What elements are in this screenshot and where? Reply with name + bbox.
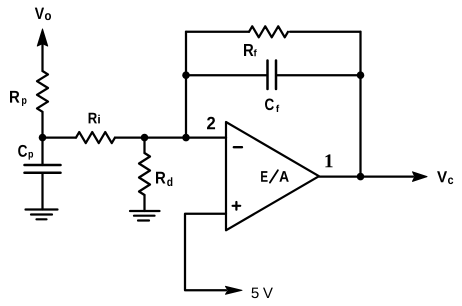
junction feedback tap on input node bbox=[182, 134, 190, 142]
junction node A bbox=[39, 134, 47, 142]
resistor Rd with connecting wires bbox=[139, 138, 150, 211]
wire Ri to op-amp input node 2 bbox=[115, 136, 226, 138]
junction Cf right bbox=[357, 71, 365, 79]
wire top feedback left of Rf bbox=[186, 31, 249, 33]
ground under Cp bbox=[26, 210, 58, 220]
label 5 V bbox=[252, 288, 273, 298]
node Vc label bbox=[437, 171, 453, 184]
ground under Rd bbox=[130, 211, 160, 221]
wire Cf right bbox=[277, 74, 361, 76]
label Cf bbox=[265, 98, 279, 112]
wire feedback vertical tap bbox=[185, 32, 187, 138]
wire right feedback vertical bbox=[359, 32, 361, 177]
label E/A bbox=[261, 171, 289, 182]
wire node A to Ri bbox=[43, 136, 77, 138]
capacitor Cp bbox=[25, 165, 61, 173]
pin 1 label bbox=[325, 154, 332, 167]
label Ri bbox=[89, 113, 100, 124]
junction node B bbox=[141, 134, 149, 142]
op-amp plus input marking bbox=[233, 202, 241, 210]
wire plus input to 5V with arrowhead bbox=[185, 214, 242, 294]
wire Cp to ground bbox=[41, 173, 43, 210]
op-amp U1 E/A triangle bbox=[226, 122, 319, 230]
op-amp minus input marking bbox=[234, 146, 242, 148]
resistor Rf bbox=[249, 26, 288, 37]
label Rp bbox=[10, 91, 27, 106]
resistor Ri bbox=[76, 132, 115, 143]
capacitor Cf bbox=[268, 61, 277, 90]
wire Rp to Cp through node A bbox=[41, 112, 43, 165]
wire output to Vc with arrowhead bbox=[319, 172, 427, 182]
node Vo label bbox=[35, 8, 51, 20]
label Cp bbox=[18, 145, 33, 160]
junction Cf tap left bbox=[182, 71, 190, 79]
wire top feedback right of Rf bbox=[290, 31, 361, 33]
wire Cf left bbox=[186, 74, 267, 76]
label Rd bbox=[156, 172, 172, 186]
pin 2 label bbox=[207, 117, 215, 130]
resistor Rp bbox=[37, 71, 48, 112]
junction output node bbox=[357, 173, 365, 181]
label Rf bbox=[244, 44, 257, 56]
wire to Vo with arrowhead bbox=[37, 29, 47, 71]
